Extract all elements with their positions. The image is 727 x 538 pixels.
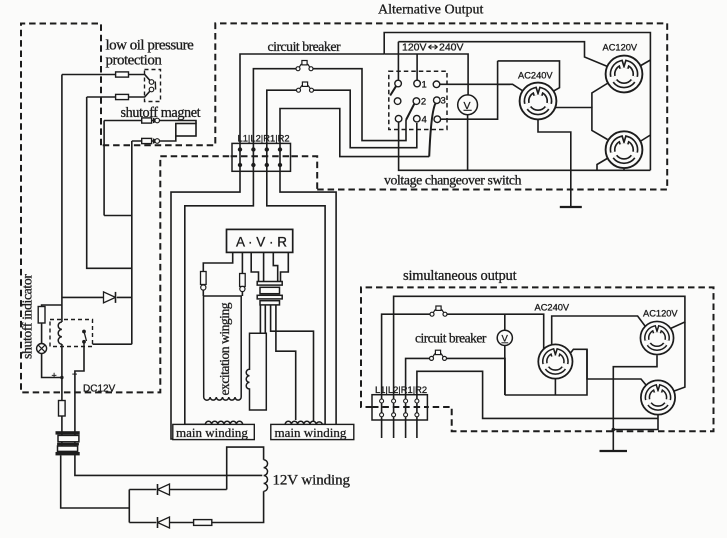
wire AVR lead 5: [273, 252, 277, 281]
shutoff indicator lamp: [37, 344, 47, 354]
switch blade 2R (curved): [429, 103, 435, 156]
wire stack to rotor left: [259, 305, 261, 333]
dashed frame: engine / generator chassis outline (left box joined to Alternative Output box): [21, 23, 667, 392]
wire battery bottom left: [61, 455, 130, 508]
shutoff magnet body: [176, 124, 196, 137]
wire voltmeter bottom: [467, 115, 469, 170]
AVR box: [227, 229, 293, 252]
wire low-oil contact lower: [87, 91, 150, 97]
wire contact 1L riser: [397, 42, 399, 80]
diode D2: [158, 517, 170, 528]
ground (simultaneous): [600, 450, 628, 452]
svg-text:circuit breaker: circuit breaker: [268, 39, 341, 54]
wire 12V winding top loop: [227, 447, 264, 489]
svg-text:circuit breaker: circuit breaker: [415, 331, 487, 346]
svg-text:AC240V: AC240V: [535, 303, 570, 313]
switch contacts row 3: [395, 115, 402, 122]
breaker 2 (simultaneous): [430, 350, 447, 360]
wire AVR lead 6: [281, 252, 289, 281]
wire magnet lower lead: [132, 136, 176, 141]
svg-text:simultaneous output: simultaneous output: [403, 268, 517, 284]
AC240V receptacle (alternative): [520, 83, 557, 120]
svg-text:1: 1: [422, 80, 427, 91]
wires below stack: [260, 305, 313, 422]
resistor (low oil upper): [116, 72, 129, 77]
wire diode row: [62, 296, 132, 298]
fuse: [59, 401, 66, 417]
wire B: low-oil lower branch: [87, 97, 132, 268]
AC120V receptacle upper (alternative): [606, 56, 643, 93]
svg-text:120V: 120V: [402, 42, 427, 54]
wire R2 run: [280, 109, 429, 157]
switch blade 1L: [390, 86, 396, 95]
svg-text:voltage changeover switch: voltage changeover switch: [384, 173, 522, 188]
wire diode branch junction: [128, 490, 130, 523]
wire 3R to AC240V tag: [441, 61, 498, 119]
svg-text:AC120V: AC120V: [603, 43, 638, 53]
wire voltmeter hang: [504, 314, 506, 395]
AC240V receptacle (simultaneous): [538, 344, 572, 378]
wire AC240V upper-right lead: [552, 316, 648, 345]
wire bottom bus: [399, 123, 651, 171]
rotor block: [246, 333, 266, 410]
wire minus lead: [75, 347, 84, 455]
breaker 1 (simultaneous): [430, 306, 447, 316]
wire AVR lead 1 (left, to excitation): [203, 252, 232, 271]
sensing element right (small resistor + circle): [240, 274, 246, 287]
wire R1 to breaker 2: [406, 358, 505, 395]
simultaneous output dashed box: [361, 287, 714, 431]
wire AVR lead 3: [251, 252, 258, 281]
main winding label 2 (boxed): [271, 424, 354, 439]
wire upper diode row: [129, 489, 226, 491]
wire AC120V lower bottom stem to ground: [613, 415, 658, 430]
connector (magnet upper): half dot + circle: [153, 118, 156, 123]
svg-text:−: −: [72, 369, 77, 379]
wire relay contact to C: [93, 343, 132, 345]
resistor (magnet lower): [142, 138, 152, 143]
connector (magnet lower): [153, 138, 156, 143]
battery / connector stack: [56, 431, 80, 434]
svg-text:240V: 240V: [439, 42, 464, 54]
wire AC120V-2 right to bracket: [640, 135, 650, 142]
wire AC120V-2 bottom stem: [623, 169, 625, 170]
wire L1 down into generator: [171, 172, 245, 439]
relay coil box (dashed): [50, 320, 93, 347]
AC120V receptacle lower (alternative): [606, 131, 643, 168]
wire L2 top run to AC120V upper: [394, 296, 685, 394]
switch blade 2M: [406, 104, 414, 120]
main winding 2 coil: [285, 421, 322, 424]
wire: magnet leads down: [103, 121, 105, 216]
wire L1 top run: [240, 54, 384, 143]
contact circles and blade: [149, 80, 154, 85]
wire second bracket to AC120V upper: [398, 42, 607, 67]
wire L1 continue under 120V label to voltmeter: [384, 54, 468, 95]
relay coil: [58, 322, 62, 344]
terminal wires: [382, 395, 417, 438]
dashed wire terminal strip to Alternative Output frame: [291, 156, 317, 189]
wire stack to main winding 2 left: [276, 305, 296, 420]
wire shutoff indicator branch: [42, 305, 62, 378]
svg-text:main winding: main winding: [275, 425, 347, 440]
switch contacts row 2: [394, 98, 401, 105]
main winding label 1 (boxed): [173, 424, 255, 439]
AC240V tag outline: [498, 61, 560, 93]
wire L2 down to main winding 1: [185, 172, 254, 424]
breaker 2 (alternative): [297, 82, 314, 92]
svg-text:+: +: [52, 371, 57, 381]
wire low-oil contact upper: [62, 75, 150, 81]
svg-text:DC12V: DC12V: [83, 384, 116, 395]
wire magnet upper lead: [104, 121, 196, 124]
voltmeter (alternative): [458, 95, 478, 115]
dashed wire through simultaneous terminal strip: [372, 406, 427, 408]
svg-text:main winding: main winding: [176, 425, 248, 440]
AVR leads to brush stack: [203, 252, 288, 296]
svg-text:2: 2: [421, 97, 426, 108]
main winding 1 coil: [205, 421, 242, 424]
svg-text:12V winding: 12V winding: [273, 473, 351, 489]
wire A: low-oil to relay coil to battery: [61, 75, 63, 323]
wire R1 to breaker 2: [267, 90, 417, 148]
left engine dashed box: [21, 24, 160, 393]
AC120V receptacle upper (simultaneous): [640, 321, 673, 354]
AC120V receptacle lower (simultaneous): [641, 380, 675, 414]
svg-text:low oil pressure: low oil pressure: [106, 38, 195, 54]
wire AC240V bottom to ground bus: [538, 120, 571, 207]
terminal dots: [238, 147, 282, 167]
wire R2 to AC120V lower bottom: [417, 371, 658, 418]
wire excitation leads below connectors: [203, 291, 242, 297]
svg-text:L1|L2|R1|R2: L1|L2|R1|R2: [238, 133, 290, 144]
wire bottom run to AC240V bottom: [505, 349, 587, 395]
wire battery bottom right: [75, 455, 262, 476]
wire AC120V-1 right to bracket: [640, 60, 650, 66]
svg-text:AC240V: AC240V: [518, 71, 553, 81]
resistor (charge loop): [194, 520, 212, 526]
oil pressure contact box (dashed): [145, 70, 161, 102]
wire rung: [104, 215, 132, 217]
brush / slip-ring stack: [257, 282, 282, 286]
voltmeter (simultaneous): [497, 330, 512, 345]
svg-text:L1|L2|R1|R2: L1|L2|R1|R2: [375, 384, 427, 395]
wire AC240V right path to AC120V lower: [587, 349, 649, 388]
wire L1 outer bracket: [384, 33, 650, 171]
svg-text:A · V · R: A · V · R: [236, 235, 287, 250]
excitation winding body: [204, 296, 242, 400]
terminal dots: [380, 399, 419, 417]
diode D1: [158, 484, 170, 495]
diode D3 (left section): [104, 292, 116, 303]
terminal wires through strip: [240, 143, 280, 172]
svg-text:3: 3: [441, 96, 446, 107]
wire AC240V bottom stem: [554, 379, 556, 395]
12V winding coil: [264, 460, 268, 492]
shutoff indicator resistor: [38, 307, 45, 324]
120V changeover switch dashed box: [389, 71, 447, 129]
wire AC240V right to AC120V column: [555, 108, 608, 140]
wire stack to rotor right: [264, 305, 266, 333]
svg-text:shutoff magnet: shutoff magnet: [121, 105, 201, 121]
wires terminal to breakers (up and over): [171, 54, 429, 439]
wire contact 1M stem: [416, 54, 418, 80]
wire L2 column to AC120V lower upper-right: [672, 322, 685, 392]
wire stack to main winding 2 right: [271, 305, 314, 422]
junction dot ground: [612, 428, 616, 432]
svg-text:excitation winging: excitation winging: [217, 302, 232, 395]
relay contact dots: [82, 330, 86, 334]
wire AVR lead 4: [263, 252, 265, 281]
svg-text:protection: protection: [106, 53, 163, 69]
wire contact 1R to AC240V: [440, 84, 525, 92]
wire R1 down to main winding 2: [267, 172, 325, 424]
svg-text:shutoff indicator: shutoff indicator: [20, 274, 35, 359]
svg-text:AC120V: AC120V: [643, 309, 678, 319]
svg-text:4: 4: [422, 115, 427, 126]
switch contacts row 1: [395, 80, 402, 87]
resistor (low oil lower): [116, 94, 129, 99]
wire AVR lead 2 (sensing): [241, 252, 243, 273]
wire AC120V upper bottom stem to ground: [613, 355, 657, 451]
sensing element left (small resistor + circle): [201, 272, 207, 285]
wire AC120V-1 lower-left to column: [592, 83, 608, 108]
wire AC120V-2 lower-left to bus: [597, 158, 608, 170]
svg-text:Alternative Output: Alternative Output: [378, 3, 483, 18]
wire R2 down into generator: [280, 172, 336, 439]
resistor (magnet upper): [142, 118, 152, 123]
terminal strip (alternative): [232, 143, 291, 171]
wire L2 to breaker 1: [253, 69, 406, 144]
breaker 1 (alternative): [296, 60, 313, 70]
wire L1 to breaker 1 to AC240V: [382, 314, 544, 395]
dashed wire left box to terminal strip: [160, 155, 230, 157]
ground (alternative): [560, 206, 582, 208]
dashed wire through terminal strip: [231, 155, 292, 157]
Alternative Output dashed box: [101, 23, 667, 189]
wire lower diode row with resistor: [129, 491, 263, 522]
terminal strip (simultaneous): [372, 395, 427, 420]
